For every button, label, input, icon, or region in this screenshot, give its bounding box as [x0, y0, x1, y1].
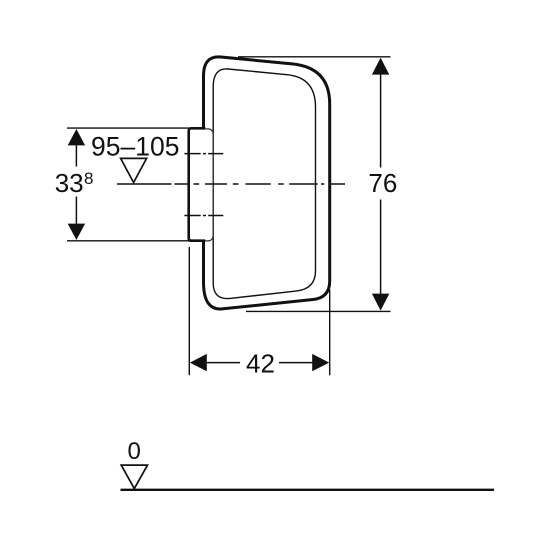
water level triangle symbol: [121, 158, 147, 182]
dim 33-8 arrow down: [68, 224, 85, 240]
dim 33-8 top extension line: [67, 127, 189, 129]
dim 42 left extension line: [188, 247, 190, 375]
dim 33-8 dimension line: [75, 145, 77, 224]
cistern body outer contour: [204, 57, 330, 309]
mounting plate (thin rounded rect): [196, 129, 213, 241]
svg-text:33: 33: [55, 168, 84, 198]
dim 76 arrow up: [372, 58, 389, 75]
dim 42 arrow left: [190, 354, 207, 371]
floor line: [121, 489, 495, 491]
svg-text:8: 8: [84, 169, 93, 188]
center line upper hole: [184, 153, 223, 155]
svg-text:95–105: 95–105: [91, 131, 179, 161]
main horizontal axis / water level line: [117, 183, 345, 185]
dim 76 bottom extension line: [246, 310, 391, 312]
datum triangle: [121, 465, 147, 489]
center line lower hole: [184, 215, 223, 217]
dim 33-8 bottom extension line: [67, 240, 189, 242]
wall flange (thick outline, open right side): [189, 128, 206, 240]
dim 76 top extension line: [238, 56, 391, 58]
dim 42 arrow right: [312, 354, 329, 371]
cistern body inner contour: [213, 69, 315, 299]
svg-text:76: 76: [368, 168, 397, 198]
dim 76 arrow down: [372, 294, 389, 311]
dim 42 dimension line: [206, 362, 313, 364]
svg-text:0: 0: [128, 438, 141, 465]
dim 42 right extension line: [329, 290, 331, 376]
dim 76 dimension line: [380, 75, 382, 295]
dim 33-8 arrow up: [68, 129, 85, 145]
svg-text:42: 42: [246, 349, 275, 379]
